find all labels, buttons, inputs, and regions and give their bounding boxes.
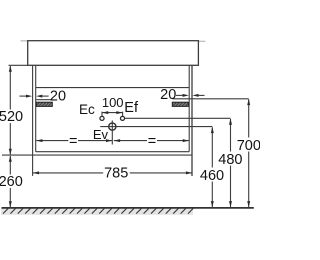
svg-text:20: 20 — [50, 88, 66, 104]
svg-text:Ef: Ef — [124, 100, 139, 116]
svg-text:460: 460 — [200, 168, 224, 184]
svg-text:=: = — [148, 133, 156, 149]
svg-text:100: 100 — [102, 95, 124, 110]
svg-text:480: 480 — [218, 152, 242, 168]
svg-text:260: 260 — [0, 174, 23, 190]
svg-text:700: 700 — [237, 138, 260, 154]
svg-text:Ec: Ec — [79, 102, 95, 117]
svg-text:785: 785 — [104, 166, 128, 182]
svg-text:20: 20 — [160, 87, 176, 103]
svg-text:520: 520 — [0, 109, 23, 125]
svg-text:=: = — [69, 133, 77, 149]
